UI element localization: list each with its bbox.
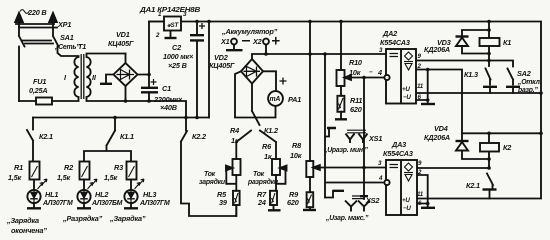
- svg-text:К1.3: К1.3: [464, 70, 478, 79]
- svg-text:0,25A: 0,25A: [29, 86, 47, 95]
- svg-text:mA: mA: [270, 96, 281, 103]
- svg-text:Ток: Ток: [204, 171, 216, 178]
- svg-text:620: 620: [287, 198, 299, 207]
- svg-text:11: 11: [417, 191, 424, 198]
- svg-text:XP1: XP1: [57, 20, 71, 29]
- svg-text:разр.”: разр.”: [517, 87, 538, 94]
- svg-text:−: −: [369, 69, 373, 76]
- svg-text:1,5к: 1,5к: [8, 173, 22, 182]
- svg-text:×25 В: ×25 В: [168, 61, 187, 70]
- svg-text:FU1: FU1: [33, 77, 46, 86]
- svg-text:1000 мк×: 1000 мк×: [163, 52, 194, 61]
- svg-text:АЛ307БМ: АЛ307БМ: [91, 200, 123, 207]
- svg-text:АЛ307ГМ: АЛ307ГМ: [139, 200, 170, 207]
- svg-text:4: 4: [377, 68, 382, 77]
- svg-text:К1.1: К1.1: [120, 132, 134, 141]
- svg-text:SA2: SA2: [517, 69, 531, 78]
- svg-text:620: 620: [350, 105, 362, 114]
- svg-text:зарядки: зарядки: [199, 178, 226, 186]
- svg-text:39: 39: [219, 198, 228, 207]
- svg-text:⚹ST: ⚹ST: [167, 22, 179, 29]
- svg-text:„Аккумулятор”: „Аккумулятор”: [221, 27, 278, 36]
- svg-text:КЦ405Г: КЦ405Г: [108, 39, 134, 48]
- svg-text:ДА2: ДА2: [382, 29, 397, 38]
- svg-text:C1: C1: [162, 84, 171, 93]
- svg-text:R10: R10: [349, 58, 362, 67]
- svg-text:R1: R1: [14, 163, 23, 172]
- svg-text:„Uзар. макс.”: „Uзар. макс.”: [325, 215, 369, 222]
- svg-text:XS1: XS1: [368, 134, 382, 143]
- svg-text:К2: К2: [503, 143, 511, 152]
- svg-text:К1: К1: [503, 38, 511, 47]
- svg-text:К1.2: К1.2: [264, 126, 278, 135]
- svg-text:11: 11: [417, 83, 424, 90]
- svg-text:R2: R2: [64, 163, 73, 172]
- svg-text:КД206А: КД206А: [424, 133, 450, 142]
- svg-text:SA1: SA1: [60, 33, 74, 42]
- svg-text:C2: C2: [172, 43, 181, 52]
- svg-text:„Откл.: „Откл.: [517, 79, 542, 86]
- svg-text:Ток: Ток: [253, 171, 265, 178]
- svg-text:1,5к: 1,5к: [57, 173, 71, 182]
- svg-text:„Зарядка: „Зарядка: [6, 216, 39, 225]
- svg-text:R8: R8: [292, 141, 302, 150]
- svg-text:HL2: HL2: [95, 190, 108, 199]
- svg-text:X2: X2: [252, 37, 262, 46]
- svg-text:R3: R3: [114, 163, 123, 172]
- svg-text:„Зарядка”: „Зарядка”: [109, 214, 146, 223]
- svg-text:АЛ307ГМ: АЛ307ГМ: [42, 200, 73, 207]
- svg-text:КЦ405Г: КЦ405Г: [209, 61, 235, 70]
- svg-text:разрядки: разрядки: [247, 178, 279, 186]
- svg-text:HL1: HL1: [45, 190, 58, 199]
- svg-text:−U: −U: [403, 94, 411, 101]
- svg-text:T1: T1: [78, 42, 86, 51]
- svg-text:×40В: ×40В: [160, 103, 177, 112]
- svg-text:1к: 1к: [231, 136, 239, 145]
- svg-text:24: 24: [257, 198, 266, 207]
- svg-text:VD4: VD4: [434, 124, 448, 133]
- svg-text:К554СА3: К554СА3: [380, 38, 410, 47]
- svg-text:ДА3: ДА3: [391, 140, 406, 149]
- svg-text:+U: +U: [402, 86, 410, 93]
- svg-text:1,5к: 1,5к: [104, 173, 118, 182]
- svg-text:220 В: 220 В: [27, 8, 46, 17]
- svg-text:10к: 10к: [349, 68, 361, 77]
- svg-text:ДА1 КР142ЕН8В: ДА1 КР142ЕН8В: [139, 5, 200, 14]
- svg-text:К2.2: К2.2: [192, 132, 206, 141]
- svg-text:−U: −U: [403, 205, 411, 212]
- svg-text:HL3: HL3: [143, 190, 156, 199]
- svg-text:VD1: VD1: [116, 30, 130, 39]
- svg-text:окончена”: окончена”: [11, 226, 47, 235]
- svg-text:КД206А: КД206А: [424, 45, 450, 54]
- svg-text:R6: R6: [262, 142, 272, 151]
- svg-text:К2.1: К2.1: [39, 132, 53, 141]
- svg-text:+U: +U: [402, 197, 410, 204]
- svg-text:PA1: PA1: [288, 95, 301, 104]
- svg-text:„Разрядка”: „Разрядка”: [62, 214, 103, 223]
- svg-text:1к: 1к: [264, 152, 272, 161]
- svg-text:К554СА3: К554СА3: [383, 149, 413, 158]
- svg-text:X1: X1: [220, 37, 230, 46]
- svg-text:К2.1: К2.1: [466, 181, 480, 190]
- svg-text:XS2: XS2: [365, 196, 379, 205]
- svg-text:10к: 10к: [290, 151, 302, 160]
- svg-text:R4: R4: [230, 126, 239, 135]
- svg-text:„Сеть”: „Сеть”: [54, 44, 80, 51]
- svg-text:R11: R11: [350, 96, 362, 105]
- svg-text:„Uразр. мин.”: „Uразр. мин.”: [323, 147, 368, 154]
